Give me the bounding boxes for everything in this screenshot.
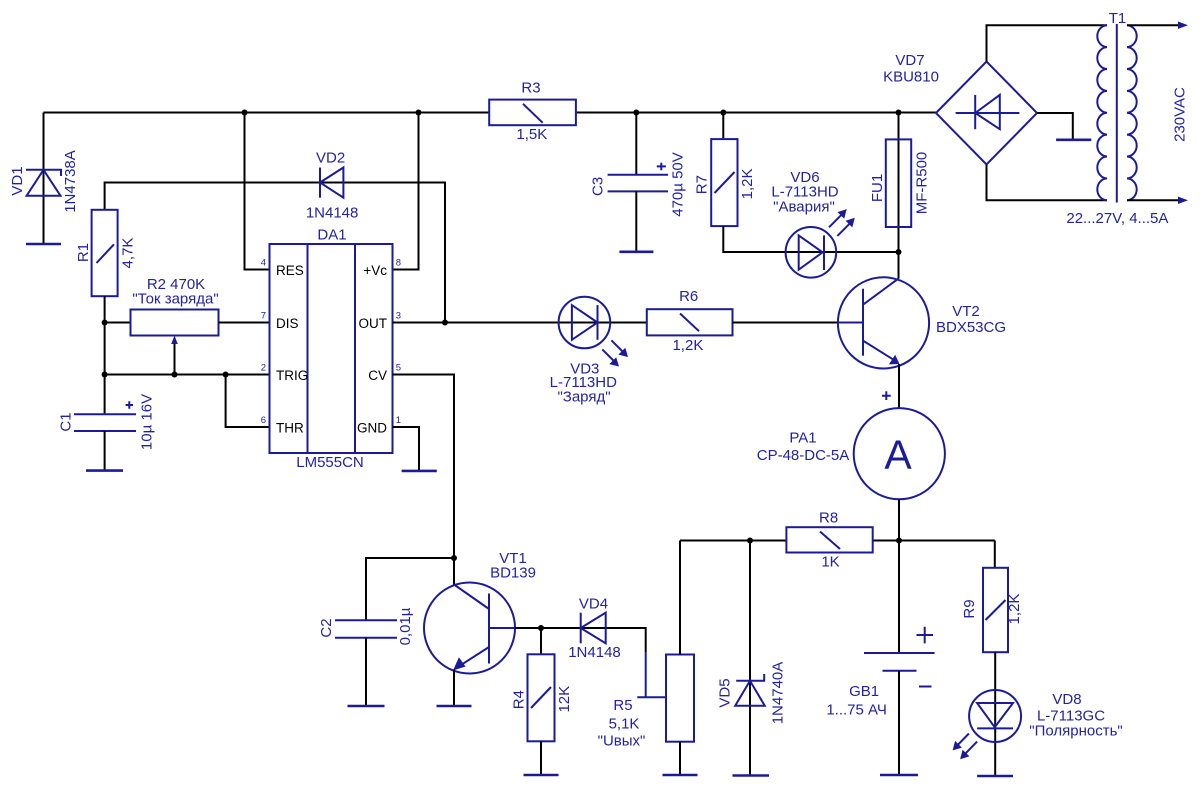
transistor VT2 BDX53CG — [733, 252, 1007, 408]
node junction dots right — [633, 110, 901, 256]
resistor R7 1,2K — [694, 113, 899, 253]
svg-text:DA1: DA1 — [317, 227, 346, 244]
wire mid rail y=540 — [680, 540, 786, 542]
ground under C1 — [86, 469, 123, 472]
resistor R3 1,5K — [489, 80, 576, 143]
svg-text:+Vc: +Vc — [363, 263, 387, 278]
svg-text:GB1: GB1 — [849, 683, 879, 700]
ground under VD1 — [26, 243, 61, 246]
svg-text:R6: R6 — [679, 288, 698, 305]
ground under R5 — [663, 774, 698, 777]
LED VD3 L-7113HD — [445, 297, 647, 406]
svg-text:CP-48-DC-5A: CP-48-DC-5A — [757, 447, 850, 464]
svg-text:R8: R8 — [819, 510, 838, 527]
svg-text:R1: R1 — [75, 243, 92, 262]
capacitor C1 10µ 16V — [58, 375, 156, 471]
svg-text:C1: C1 — [58, 412, 75, 431]
transistor VT1 BD139 — [424, 550, 541, 706]
zener diode VD1 1N4738A — [9, 113, 79, 245]
svg-text:FU1: FU1 — [869, 174, 886, 202]
ground under C2 — [348, 705, 385, 708]
svg-text:"Авария": "Авария" — [773, 199, 835, 216]
wire top rail right of R3 — [576, 112, 936, 114]
svg-text:22...27V, 4...5A: 22...27V, 4...5A — [1066, 210, 1168, 227]
svg-text:7: 7 — [261, 311, 266, 322]
svg-text:6: 6 — [261, 415, 266, 426]
svg-text:1N4738A: 1N4738A — [62, 150, 79, 213]
wire OUT pin to node — [393, 322, 446, 324]
ground at GND pin — [402, 470, 437, 473]
svg-text:CV: CV — [368, 368, 387, 383]
svg-text:4,7K: 4,7K — [120, 238, 137, 269]
svg-text:BD139: BD139 — [490, 565, 536, 582]
potentiometer R5 5,1K — [598, 541, 694, 776]
LED VD6 L-7113HD — [771, 169, 854, 278]
ground under VT1 — [437, 705, 472, 708]
resistor R9 1,2K — [961, 568, 1023, 776]
wire bridge plus output — [1037, 113, 1073, 140]
resistor R1 4,7K — [75, 210, 137, 323]
svg-text:PA1: PA1 — [789, 430, 816, 447]
transformer T1 — [1066, 10, 1188, 227]
svg-text:1N4148: 1N4148 — [306, 205, 359, 222]
svg-text:1,5K: 1,5K — [516, 126, 547, 143]
svg-text:10µ 16V: 10µ 16V — [139, 394, 156, 450]
svg-text:"Полярность": "Полярность" — [1029, 723, 1122, 740]
diode VD2 1N4148 — [105, 149, 445, 322]
svg-text:VT2: VT2 — [952, 303, 980, 320]
svg-text:3: 3 — [396, 311, 401, 322]
svg-text:C3: C3 — [589, 177, 606, 196]
battery GB1 1...75 АЧ — [826, 541, 934, 776]
ground under VD8 — [977, 775, 1013, 778]
svg-text:12K: 12K — [556, 686, 573, 713]
bridge rectifier VD7 KBU810 — [883, 52, 1037, 165]
resistor R6 1,2K — [647, 288, 733, 354]
svg-text:VD8: VD8 — [1052, 691, 1081, 708]
svg-text:GND: GND — [357, 420, 387, 435]
svg-text:1,2K: 1,2K — [739, 168, 756, 199]
svg-text:R5: R5 — [613, 697, 632, 714]
capacitor C2 0,01µ — [318, 558, 454, 706]
node junction dots left — [102, 110, 448, 378]
svg-text:A: A — [884, 432, 912, 478]
resistor R4 12K — [511, 628, 574, 775]
ground under R4 — [524, 774, 559, 777]
svg-text:"Заряд": "Заряд" — [557, 388, 610, 405]
ground at bridge output — [1056, 139, 1091, 142]
ammeter PA1 CP-48-DC-5A — [757, 391, 945, 540]
wire node to R9 — [994, 541, 996, 568]
svg-text:R7: R7 — [694, 175, 711, 194]
wire bridge bottom AC lead — [987, 165, 1108, 201]
node junction dots middle — [451, 538, 902, 632]
svg-text:"Uвых": "Uвых" — [598, 733, 646, 750]
wire rail to RES pin — [245, 113, 270, 270]
ground under C3 — [619, 251, 653, 254]
svg-text:VD4: VD4 — [579, 596, 608, 613]
svg-text:0,01µ: 0,01µ — [397, 607, 414, 645]
wire left bus to TRIG — [105, 323, 270, 375]
wire top rail left of R3 — [44, 112, 490, 114]
svg-text:KBU810: KBU810 — [883, 69, 939, 86]
potentiometer R2 470K — [105, 276, 270, 375]
svg-text:1N4740A: 1N4740A — [770, 662, 787, 725]
svg-text:LM555CN: LM555CN — [296, 454, 364, 471]
svg-text:R9: R9 — [961, 599, 978, 618]
wire mid rail right of R8 — [873, 540, 995, 542]
svg-text:"Ток заряда": "Ток заряда" — [132, 291, 218, 308]
wire THR branch — [226, 375, 270, 428]
svg-text:5: 5 — [396, 363, 401, 374]
svg-text:1N4148: 1N4148 — [568, 644, 621, 661]
svg-text:VD7: VD7 — [895, 52, 924, 69]
LED VD8 L-7113GC — [953, 690, 1123, 759]
svg-text:5,1K: 5,1K — [609, 715, 640, 732]
wire CV pin down — [393, 375, 455, 559]
wire bridge top AC lead — [987, 25, 1108, 61]
svg-text:C2: C2 — [318, 618, 335, 637]
svg-text:OUT: OUT — [359, 316, 388, 331]
svg-text:470µ 50V: 470µ 50V — [670, 152, 687, 217]
svg-text:4: 4 — [261, 258, 266, 269]
svg-text:R4: R4 — [511, 690, 528, 709]
diode VD4 1N4148 — [541, 596, 646, 662]
svg-text:1K: 1K — [821, 554, 839, 571]
svg-text:VD5: VD5 — [717, 678, 734, 707]
svg-text:VD2: VD2 — [316, 149, 345, 166]
ground under GB1 — [880, 774, 918, 777]
svg-text:TRIG: TRIG — [276, 368, 308, 383]
svg-text:VD1: VD1 — [9, 166, 26, 195]
svg-text:THR: THR — [276, 420, 304, 435]
svg-text:230VAC: 230VAC — [1172, 87, 1189, 142]
wire GND pin to ground — [393, 427, 420, 471]
fuse FU1 MF-R500 — [869, 113, 931, 253]
svg-text:2: 2 — [261, 363, 266, 374]
svg-text:T1: T1 — [1109, 10, 1127, 27]
ground under VD5 — [733, 774, 770, 777]
svg-text:1: 1 — [396, 415, 401, 426]
wire rail to +Vc pin — [393, 113, 419, 270]
resistor R8 1K — [786, 510, 872, 571]
svg-text:R3: R3 — [521, 80, 540, 97]
op-amp timer DA1 LM555CN — [261, 227, 401, 472]
svg-text:1,2K: 1,2K — [672, 337, 703, 354]
svg-text:BDX53CG: BDX53CG — [936, 319, 1006, 336]
svg-text:1,2K: 1,2K — [1006, 594, 1023, 625]
capacitor C3 470µ 50V — [589, 113, 686, 252]
svg-text:1...75 АЧ: 1...75 АЧ — [826, 702, 887, 719]
svg-text:DIS: DIS — [276, 316, 299, 331]
svg-text:8: 8 — [396, 258, 401, 269]
zener diode VD5 1N4740A — [717, 541, 787, 776]
svg-text:RES: RES — [276, 263, 304, 278]
svg-text:MF-R500: MF-R500 — [913, 152, 930, 215]
